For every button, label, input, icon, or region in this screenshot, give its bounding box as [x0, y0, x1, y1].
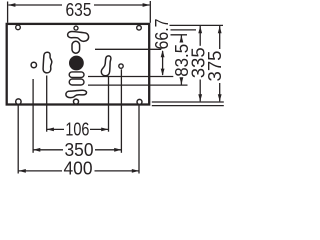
wire ext lineD circles	[152, 101, 224, 103]
dim 83.5 vertical	[172, 35, 192, 84]
slot peanut bottom-center	[66, 90, 87, 97]
hole circle mid-left small	[31, 62, 36, 67]
hole circle top-right	[137, 26, 142, 31]
wire ext lineA	[95, 48, 161, 50]
svg-text:635: 635	[66, 0, 92, 20]
wire ext lineB	[88, 76, 173, 78]
wire ext line1 top edge right	[170, 24, 224, 26]
dim 375 vertical	[205, 26, 225, 101]
slot kidney right	[101, 56, 111, 76]
dim 350 horizontal	[33, 140, 121, 160]
wire ext x121.4 from small circle	[120, 69, 122, 153]
dim 66.7 vertical	[152, 19, 172, 76]
slot capsule h1 center	[69, 72, 84, 78]
slot capsule vertical center	[72, 41, 80, 53]
svg-text:400: 400	[64, 159, 93, 178]
slot capsule h2 center	[69, 79, 84, 85]
hole circle mid-right small	[119, 64, 123, 68]
hole circle top-left	[16, 25, 21, 30]
hole circle bottom-right	[137, 99, 142, 104]
wire ext lineC	[88, 84, 188, 86]
svg-text:66.7: 66.7	[152, 19, 172, 50]
slot peanut top-center	[68, 32, 89, 42]
wire ext line left of 635	[7, 2, 9, 23]
dim 335 vertical	[189, 26, 209, 101]
dim 106 horizontal	[47, 120, 109, 140]
hole black dot center	[69, 56, 84, 71]
wire ext x46.7 from left kidney	[46, 76, 48, 132]
wire ext line2	[171, 29, 197, 31]
slot kidney left	[43, 52, 52, 73]
hole circle bottom-center	[74, 99, 79, 104]
dim line 635	[8, 4, 149, 6]
plate outline	[7, 24, 150, 105]
wire ext x17.6 below bottom-left circle	[17, 105, 19, 173]
svg-text:375: 375	[205, 51, 225, 82]
svg-text:106: 106	[65, 120, 89, 140]
hole circle bottom-left	[16, 99, 21, 104]
hole circle top-center small	[74, 26, 78, 30]
wire ext x138.2 below bottom-right circle	[138, 106, 140, 174]
wire ext line3	[171, 34, 188, 36]
wire ext x32.4	[32, 79, 34, 153]
wire ext line right of 635	[149, 1, 151, 23]
wire ext x108.5 from right kidney	[108, 76, 110, 132]
wire ext lineE bottom edge right	[152, 105, 224, 107]
dim 400 horizontal	[19, 159, 139, 179]
svg-text:350: 350	[65, 140, 94, 160]
